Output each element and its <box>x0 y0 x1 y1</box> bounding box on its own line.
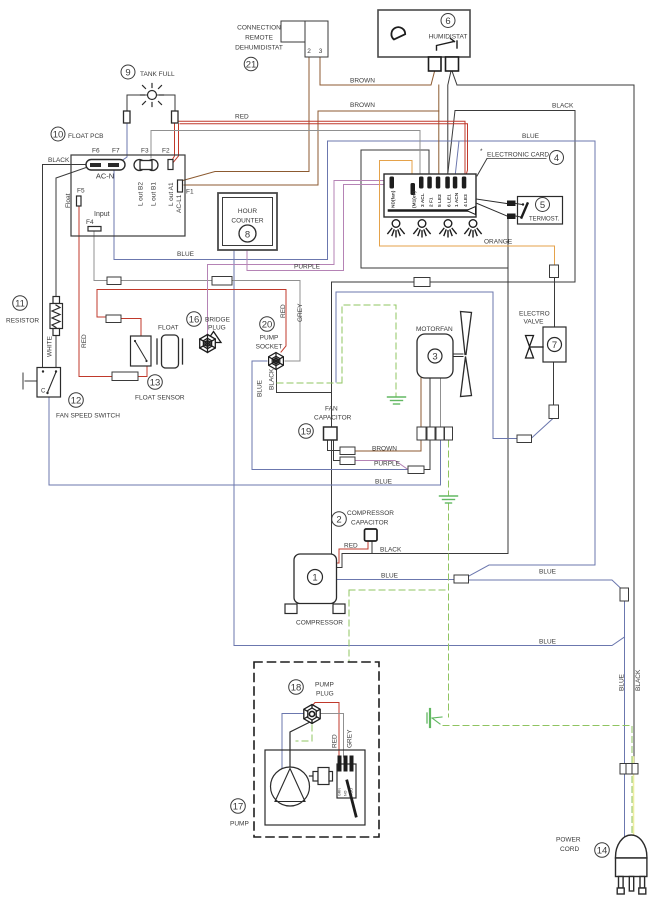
humidistat terminal 1 <box>429 57 442 71</box>
humidistat sensor symbol <box>391 27 405 39</box>
svg-text:RED: RED <box>81 334 88 348</box>
wire tank full lamp loop <box>127 95 148 111</box>
svg-text:(M1(ev): (M1(ev) <box>412 191 418 208</box>
svg-text:RESISTOR: RESISTOR <box>6 318 39 325</box>
wire black orange-connector to electrovalve <box>554 277 556 327</box>
pump lever <box>347 781 356 816</box>
svg-text:RED: RED <box>344 543 358 550</box>
svg-text:7: 7 <box>552 340 557 351</box>
wire orange card p2 to electrovalve <box>380 161 555 266</box>
svg-text:FLOAT: FLOAT <box>158 325 178 332</box>
svg-text:16: 16 <box>189 315 200 326</box>
connector grey input 2 <box>212 277 232 286</box>
svg-text:PURPLE: PURPLE <box>294 264 321 271</box>
wire black big box left to compressor <box>331 282 333 554</box>
card pins <box>390 177 467 196</box>
svg-text:F4: F4 <box>86 219 94 226</box>
wire black pump plug to pump <box>290 722 310 768</box>
svg-text:1: 1 <box>312 573 317 584</box>
connector fan capacitor 2 <box>340 457 355 465</box>
svg-text:L out B2: L out B2 <box>138 182 145 206</box>
wire black AC-N to resistor <box>56 167 89 298</box>
svg-text:6 LE1: 6 LE1 <box>446 194 452 207</box>
svg-text:1 ACN: 1 ACN <box>454 192 460 207</box>
circle 19 <box>299 424 314 439</box>
wire grey pump plug <box>321 714 344 758</box>
card bus bar <box>389 209 467 212</box>
svg-text:CONNECTION: CONNECTION <box>237 25 281 32</box>
circle 4 <box>550 151 564 165</box>
circle 20 <box>260 317 275 332</box>
wire card p6 to black N bus <box>448 111 455 173</box>
svg-text:TANK FULL: TANK FULL <box>140 71 175 78</box>
svg-text:3: 3 <box>319 48 323 55</box>
compressor M1 box <box>294 554 337 604</box>
circle 18 <box>289 680 304 695</box>
circle 13 <box>148 375 163 390</box>
wire brown motorfan lead1 <box>420 378 422 427</box>
svg-text:F2: F2 <box>162 148 170 155</box>
svg-text:21: 21 <box>246 60 257 71</box>
svg-text:TERMOST.: TERMOST. <box>529 217 560 223</box>
connector compressor blue junction <box>454 575 469 583</box>
wire blue fan speed switch down <box>48 396 50 485</box>
wire black card p4 loop <box>361 150 508 268</box>
fan blades <box>461 312 472 397</box>
svg-text:BLACK: BLACK <box>48 157 70 164</box>
circle 12 <box>69 393 84 408</box>
svg-text:4 LE3: 4 LE3 <box>463 194 469 207</box>
ground symbol below motorfan connectors <box>440 496 458 503</box>
svg-text:CAPACITOR: CAPACITOR <box>314 415 352 422</box>
ground dashed left rect <box>342 305 396 396</box>
valve symbol <box>526 336 544 359</box>
svg-text:18: 18 <box>291 683 302 694</box>
ground dashed compressor branch <box>349 589 449 591</box>
float component <box>157 335 183 368</box>
circle 3 <box>428 349 442 363</box>
svg-text:5 LE2: 5 LE2 <box>437 194 443 207</box>
svg-text:2: 2 <box>307 48 311 55</box>
svg-text:FLOAT PCB: FLOAT PCB <box>68 133 104 140</box>
connector orange to valve <box>550 265 559 278</box>
connector valve-floatsensor junction <box>517 435 532 443</box>
AC-N stadium <box>86 160 125 171</box>
circle 7 <box>548 338 562 352</box>
connector motorfan block <box>417 427 453 440</box>
svg-text:GREY: GREY <box>347 729 354 748</box>
svg-text:AC-L1: AC-L1 <box>176 194 183 213</box>
svg-text:9: 9 <box>125 68 130 79</box>
wire humidistat right terminal to black bus <box>452 71 457 85</box>
wire red tank fuse to F2 pair <box>172 123 175 161</box>
svg-text:ND(fan): ND(fan) <box>391 190 397 208</box>
svg-text:POWER: POWER <box>556 837 581 844</box>
svg-text:REMOTE: REMOTE <box>245 35 273 42</box>
svg-text:ELECTRONIC CARD: ELECTRONIC CARD <box>487 152 549 159</box>
svg-text:3 ACL: 3 ACL <box>420 193 426 207</box>
connector power cord 3gang <box>620 764 638 775</box>
F2 pin <box>168 160 173 170</box>
wire purple bridge plug to card p1 <box>208 181 391 336</box>
svg-text:BLUE: BLUE <box>619 673 626 691</box>
float pcb box <box>71 155 185 236</box>
ground dashed motorfan connector4 <box>448 441 450 495</box>
svg-text:19: 19 <box>301 427 312 438</box>
wire blue power vertical <box>624 601 626 841</box>
svg-text:CAPACITOR: CAPACITOR <box>351 520 389 527</box>
svg-text:10: 10 <box>53 130 64 141</box>
svg-text:FLOAT SENSOR: FLOAT SENSOR <box>135 395 185 402</box>
fuse tank full left <box>124 111 131 123</box>
svg-text:L out B1: L out B1 <box>151 182 158 206</box>
compressor feet <box>285 604 297 614</box>
fan shaft <box>454 353 464 355</box>
svg-text:MOTORFAN: MOTORFAN <box>416 326 453 333</box>
svg-text:FAN: FAN <box>325 406 338 413</box>
card lamp 1 <box>388 220 404 237</box>
svg-text:WHITE: WHITE <box>47 335 54 357</box>
connection remote dehumidistat box <box>281 21 328 57</box>
svg-text:Input: Input <box>94 211 110 218</box>
svg-text:HUMIDISTAT: HUMIDISTAT <box>429 34 468 41</box>
wire black N bus to big loop <box>455 111 575 283</box>
wire humidistat to card p6 <box>448 71 451 177</box>
svg-text:L out A1: L out A1 <box>168 182 175 206</box>
wire blue pump socket to purple junction <box>252 361 408 470</box>
svg-text:AC-N: AC-N <box>96 172 114 181</box>
wire white resistor to fan speed switch <box>55 334 57 368</box>
svg-text:8: 8 <box>245 230 250 241</box>
wire blue bottom run to motorfan connector <box>49 440 441 485</box>
card lamp 4 <box>465 220 481 237</box>
SEC1 <box>23 71 634 764</box>
svg-text:NO: NO <box>344 790 348 796</box>
wire brown humidistat bus to card p5 <box>438 85 440 177</box>
svg-text:COMPRESSOR: COMPRESSOR <box>296 620 343 627</box>
thermostat box U5 <box>518 197 563 225</box>
svg-text:F6: F6 <box>92 148 100 155</box>
connector grey input 1 <box>107 277 121 285</box>
wire black compressor capacitor lead <box>371 541 373 554</box>
tank full lamp <box>141 84 164 107</box>
wire blue F7 to ACN bus <box>114 141 595 576</box>
svg-text:GRN: GRN <box>338 788 342 796</box>
wire blue-grey electrovalve to float sensor net <box>553 362 555 405</box>
ground dashed pump plug stub <box>296 725 312 741</box>
wire pump socket black <box>277 370 332 393</box>
ground dashed bottom run to power cord <box>443 726 632 842</box>
svg-text:F1: F1 <box>186 189 194 196</box>
svg-text:BLACK: BLACK <box>380 547 402 554</box>
connector valve bottom <box>549 405 559 419</box>
float sensor switch box <box>131 336 152 366</box>
wire grey F3 to card p3 <box>151 131 420 178</box>
pump inner box <box>265 750 365 825</box>
wire grey F4 to pump socket <box>94 231 107 281</box>
wire fan speed switch left terminal <box>25 380 37 382</box>
pump assembly dashed box <box>254 662 379 837</box>
svg-text:COUNTER: COUNTER <box>231 218 263 225</box>
wire red pump plug <box>312 703 339 758</box>
svg-text:BLUE: BLUE <box>177 251 195 258</box>
svg-text:PLUG: PLUG <box>208 325 226 332</box>
circle 5 <box>536 198 550 212</box>
wire dark motorfan lead2 <box>429 378 431 427</box>
wire yellow power cord <box>633 757 635 841</box>
wire black big box top <box>332 281 575 283</box>
svg-text:BLACK: BLACK <box>269 368 276 390</box>
wire blue card ACN tap <box>455 141 459 177</box>
compressor capacitor C2 <box>365 529 378 541</box>
pump socket connector <box>269 353 284 370</box>
ground arrow mid bottom <box>427 709 442 727</box>
svg-text:FAN SPEED SWITCH: FAN SPEED SWITCH <box>56 413 120 420</box>
svg-text:BLUE: BLUE <box>539 639 557 646</box>
wire blue tank fuse to F7 <box>117 123 127 164</box>
pump outlet widget <box>310 768 333 785</box>
hour counter box <box>218 193 277 250</box>
svg-text:C: C <box>41 389 46 395</box>
svg-text:RED: RED <box>235 114 249 121</box>
svg-text:2: 2 <box>336 515 341 526</box>
wire red float switch to pump socket <box>97 290 286 353</box>
svg-text:RED: RED <box>280 304 287 318</box>
connector purple-blue junction <box>408 466 424 474</box>
F5 pin <box>77 196 82 206</box>
svg-text:14: 14 <box>597 846 608 857</box>
power cord plug <box>616 835 647 894</box>
svg-text:BLACK: BLACK <box>635 669 642 691</box>
svg-text:BLUE: BLUE <box>257 379 264 397</box>
svg-text:13: 13 <box>150 378 161 389</box>
wire red to card p8 line2 <box>180 124 468 177</box>
svg-text:RED: RED <box>332 734 339 748</box>
electronic card U4 box <box>384 174 476 217</box>
circle 2 <box>332 512 347 527</box>
wire fan capacitor leads <box>328 440 341 451</box>
circle 6 <box>441 14 455 28</box>
circle 17 <box>231 799 246 814</box>
connector red float switch <box>106 315 121 323</box>
svg-text:SOCKET: SOCKET <box>256 344 283 351</box>
card lamp 3 <box>440 220 456 237</box>
svg-text:BRIDGE: BRIDGE <box>205 317 231 324</box>
circle 10 <box>51 127 65 141</box>
wire black top bus to power cord <box>457 85 634 764</box>
card lamp 2 <box>414 220 430 237</box>
connector fan capacitor 1 <box>340 447 355 455</box>
svg-text:BLUE: BLUE <box>522 133 540 140</box>
svg-text:4: 4 <box>554 153 559 164</box>
svg-text:DEHUMIDISTAT: DEHUMIDISTAT <box>235 45 283 52</box>
connector power blue <box>620 588 629 601</box>
connector red F5 float sensor <box>112 372 138 381</box>
F3 fuse holder <box>134 160 158 171</box>
svg-text:HOUR: HOUR <box>238 208 257 215</box>
humidistat box <box>378 10 470 57</box>
svg-text:BLUE: BLUE <box>539 569 557 576</box>
svg-text:PUMP: PUMP <box>315 682 334 689</box>
humidistat terminal 2 <box>446 57 459 71</box>
svg-text:PUMP: PUMP <box>260 335 279 342</box>
pump terminal box <box>337 764 356 798</box>
svg-text:ORANGE: ORANGE <box>484 239 513 246</box>
wire blue junction to power connector <box>468 580 621 588</box>
svg-text:BLUE: BLUE <box>375 479 393 486</box>
fan capacitor C19 <box>324 427 338 440</box>
svg-text:17: 17 <box>233 802 244 813</box>
svg-text:PURPLE: PURPLE <box>374 461 401 468</box>
svg-text:2 F1: 2 F1 <box>428 197 434 207</box>
motorfan M3 box <box>417 334 453 378</box>
card pin labels <box>391 190 469 208</box>
circle 1 <box>308 570 323 585</box>
wire purple hour counter to card p1 <box>247 185 390 271</box>
svg-text:COMPRESSOR: COMPRESSOR <box>347 510 394 517</box>
wire purple fan capacitor to motorfan junction <box>355 461 408 470</box>
fan speed switch box <box>37 368 61 398</box>
electro valve U7 box <box>543 327 566 362</box>
svg-text:3: 3 <box>432 352 437 363</box>
svg-text:BROWN: BROWN <box>350 78 375 85</box>
pump circle symbol <box>271 767 310 806</box>
F4 pin <box>88 227 101 232</box>
svg-text:ELECTRO: ELECTRO <box>519 311 550 318</box>
svg-text:F7: F7 <box>112 148 120 155</box>
humidistat switch symbol <box>437 39 458 51</box>
wire red to card p8 line1 <box>176 121 465 177</box>
svg-text:20: 20 <box>262 320 273 331</box>
svg-text:Float: Float <box>65 193 72 208</box>
circle 9 <box>121 65 135 79</box>
svg-text:BROWN: BROWN <box>350 102 375 109</box>
pump plug connector <box>304 705 320 724</box>
resistor R <box>50 297 63 336</box>
wire grey motorfan lead3 <box>440 378 442 427</box>
svg-text:BLACK: BLACK <box>552 103 574 110</box>
svg-text:F3: F3 <box>141 148 149 155</box>
svg-text:6: 6 <box>445 16 450 27</box>
svg-text:11: 11 <box>15 299 25 310</box>
connector on big box top <box>414 278 430 287</box>
F1 pin <box>178 180 183 192</box>
circle 11 <box>13 296 28 311</box>
fuse tank full right <box>172 111 179 123</box>
svg-text:BLUE: BLUE <box>381 573 399 580</box>
wire red compressor capacitor <box>336 541 368 563</box>
svg-text:GREY: GREY <box>297 303 304 322</box>
circle 21 <box>244 57 258 71</box>
svg-text:5: 5 <box>540 200 545 211</box>
svg-text:VALVE: VALVE <box>524 319 545 326</box>
wire brown remote 2 to F1 <box>181 57 309 181</box>
bridge plug connector <box>200 332 221 353</box>
ground symbol left of motorfan <box>388 397 406 404</box>
thermostat connectors <box>476 199 507 204</box>
wire black AC-N to fan speed switch <box>43 165 89 369</box>
wire blue compressor to junction <box>336 579 454 581</box>
wire brown F1 to card p5 <box>184 111 439 185</box>
svg-text:12: 12 <box>71 396 82 407</box>
ground dashed socket run <box>277 382 342 384</box>
wire red F5 to float sensor connector <box>79 206 112 377</box>
svg-text:PUMP: PUMP <box>230 821 249 828</box>
circle 16 <box>187 312 202 327</box>
circle 8 <box>239 225 256 242</box>
svg-text:BROWN: BROWN <box>372 446 397 453</box>
wire dark purple junction to motorfan connector2 <box>424 441 430 470</box>
wire black compressor bottom bus <box>336 219 508 568</box>
wire brown remote 3 to humidistat <box>320 57 435 85</box>
wire blue hour counter down to power <box>234 250 625 646</box>
svg-text:PLUG: PLUG <box>316 691 334 698</box>
svg-text:F5: F5 <box>77 188 85 195</box>
circle 14 <box>595 843 610 858</box>
svg-text:CORD: CORD <box>560 846 579 853</box>
wire blue pump plug to pump <box>282 714 303 769</box>
